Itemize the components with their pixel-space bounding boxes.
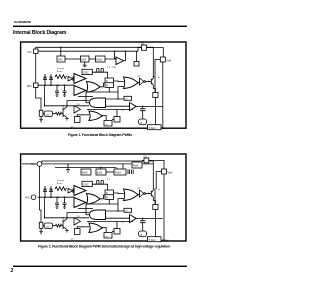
wire ref amp to bus xyxy=(124,51,126,61)
svg-text:5Vref: 5Vref xyxy=(96,58,102,61)
pin 7 Vcc xyxy=(28,49,39,54)
footer rule xyxy=(13,266,187,267)
wire Vcc rail down fig2 xyxy=(40,166,42,222)
wire Vcc bus fig2 xyxy=(42,161,153,164)
figure 1 frame xyxy=(21,42,186,128)
pin 4 RT/CT xyxy=(27,83,38,88)
svg-text:5Vref: 5Vref xyxy=(115,172,121,175)
block 5V reference fig2 xyxy=(114,164,126,175)
op-amp U1 ref xyxy=(116,57,124,65)
wire pass transistor to Vref pin xyxy=(147,48,164,57)
shared PWM core fig2 xyxy=(38,179,169,242)
svg-text:1.1V: 1.1V xyxy=(112,67,117,69)
wire totem collector rail fig2 xyxy=(152,161,154,190)
block internal bias fig2 xyxy=(96,168,106,176)
node bus junction fig2 xyxy=(67,163,101,168)
block reg amp fig2 xyxy=(132,162,142,168)
wire Vref 5V branch xyxy=(155,60,160,78)
svg-text:Vref: Vref xyxy=(166,58,171,62)
svg-text:Vref: Vref xyxy=(168,170,173,174)
pin 7 Vcc fig2 xyxy=(22,162,42,167)
svg-text:KA3842B/5B: KA3842B/5B xyxy=(14,20,32,24)
wire Vref rail down xyxy=(162,62,164,128)
pin 8 Vref xyxy=(160,57,171,62)
block UVLO 34V xyxy=(57,47,65,62)
wire bias bus xyxy=(38,50,138,52)
pin 8 Vref fig2 xyxy=(162,169,173,174)
wire bias link fig2 xyxy=(106,171,114,173)
pin 4 RT/CT fig2 xyxy=(26,195,36,200)
block internal bias xyxy=(81,56,90,67)
svg-text:R/C: R/C xyxy=(26,196,31,200)
wire left rail xyxy=(36,54,41,111)
transistor Q3 ref pass fig2 xyxy=(142,156,149,163)
wire bus to pass transistor xyxy=(138,48,142,52)
wire bias bus fig2 xyxy=(55,167,116,169)
svg-text:RefO: RefO xyxy=(82,172,88,175)
wire block link 1 xyxy=(65,58,81,60)
wire Vref rail down fig2 xyxy=(163,174,165,240)
capacitor pair fig2 xyxy=(128,170,133,175)
svg-text:2: 2 xyxy=(11,268,14,274)
shared PWM core fig1 xyxy=(38,67,169,130)
svg-text:R/C: R/C xyxy=(27,84,32,88)
transistor Q3 ref pass xyxy=(139,43,146,51)
svg-text:Internal Block Diagram: Internal Block Diagram xyxy=(13,30,67,36)
capacitor bypass fig2 xyxy=(66,164,70,173)
header rule xyxy=(13,26,187,27)
node bias junction dots xyxy=(60,47,126,52)
svg-text:Figure 1. Functional Block Dia: Figure 1. Functional Block Diagram PWMs xyxy=(68,133,132,137)
svg-text:34V: 34V xyxy=(58,58,63,61)
svg-text:Figure 2. Functional Block Dia: Figure 2. Functional Block Diagram PWM S… xyxy=(38,244,170,248)
wire Vcc bus top xyxy=(36,47,154,49)
wire Vref 5V branch fig2 xyxy=(156,172,161,190)
block 5V reference xyxy=(96,56,106,62)
block ref ok fig2 xyxy=(81,169,91,175)
svg-text:Int B: Int B xyxy=(81,58,86,61)
wire to ref amp xyxy=(105,51,116,59)
figure 2 frame xyxy=(21,154,186,241)
wire block link 2 xyxy=(89,58,96,60)
wire Q1 collector rail xyxy=(152,48,154,78)
svg-text:RefA: RefA xyxy=(133,165,139,168)
svg-text:Int B: Int B xyxy=(97,172,102,175)
block trim xyxy=(134,51,139,66)
wire pass to Vref pin fig2 xyxy=(149,160,164,169)
svg-text:Vcc: Vcc xyxy=(28,50,33,54)
